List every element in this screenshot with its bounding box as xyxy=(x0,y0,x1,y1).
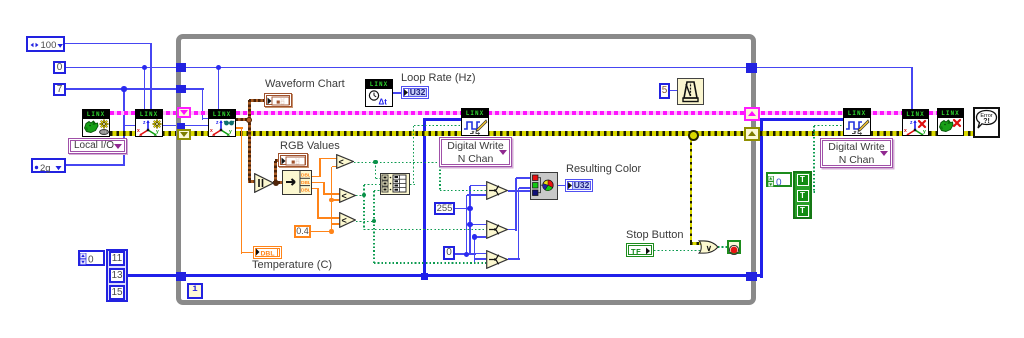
svg-text:<: < xyxy=(342,191,347,201)
svg-text:x: x xyxy=(137,128,140,134)
svg-text:DBL: DBL xyxy=(301,173,310,179)
svg-text:U32: U32 xyxy=(574,180,590,190)
svg-text:■░: ■░ xyxy=(291,158,300,166)
svg-text:<: < xyxy=(339,157,344,167)
svg-text:∨: ∨ xyxy=(705,242,711,252)
svg-text:DBL: DBL xyxy=(261,251,275,258)
svg-text:DBL: DBL xyxy=(301,180,310,186)
svg-text:U32: U32 xyxy=(410,87,426,97)
svg-text:z: z xyxy=(216,120,219,126)
svg-text:Δt: Δt xyxy=(379,98,388,107)
svg-text:x: x xyxy=(210,128,213,134)
svg-text:?!: ?! xyxy=(983,118,990,125)
svg-text:z: z xyxy=(910,120,913,126)
svg-text:2g: 2g xyxy=(40,163,51,173)
svg-text:y: y xyxy=(923,129,926,135)
svg-text:100: 100 xyxy=(41,40,57,51)
svg-text:TF: TF xyxy=(631,247,641,255)
svg-text:z: z xyxy=(143,120,146,126)
svg-text:y: y xyxy=(229,129,232,135)
svg-text:<: < xyxy=(342,216,347,226)
svg-text:x: x xyxy=(904,128,907,134)
svg-text:y: y xyxy=(156,129,159,135)
svg-text:DBL: DBL xyxy=(301,187,310,193)
svg-text:0: 0 xyxy=(776,178,782,188)
svg-text:0: 0 xyxy=(88,255,94,266)
svg-text:■░: ■░ xyxy=(276,98,285,106)
